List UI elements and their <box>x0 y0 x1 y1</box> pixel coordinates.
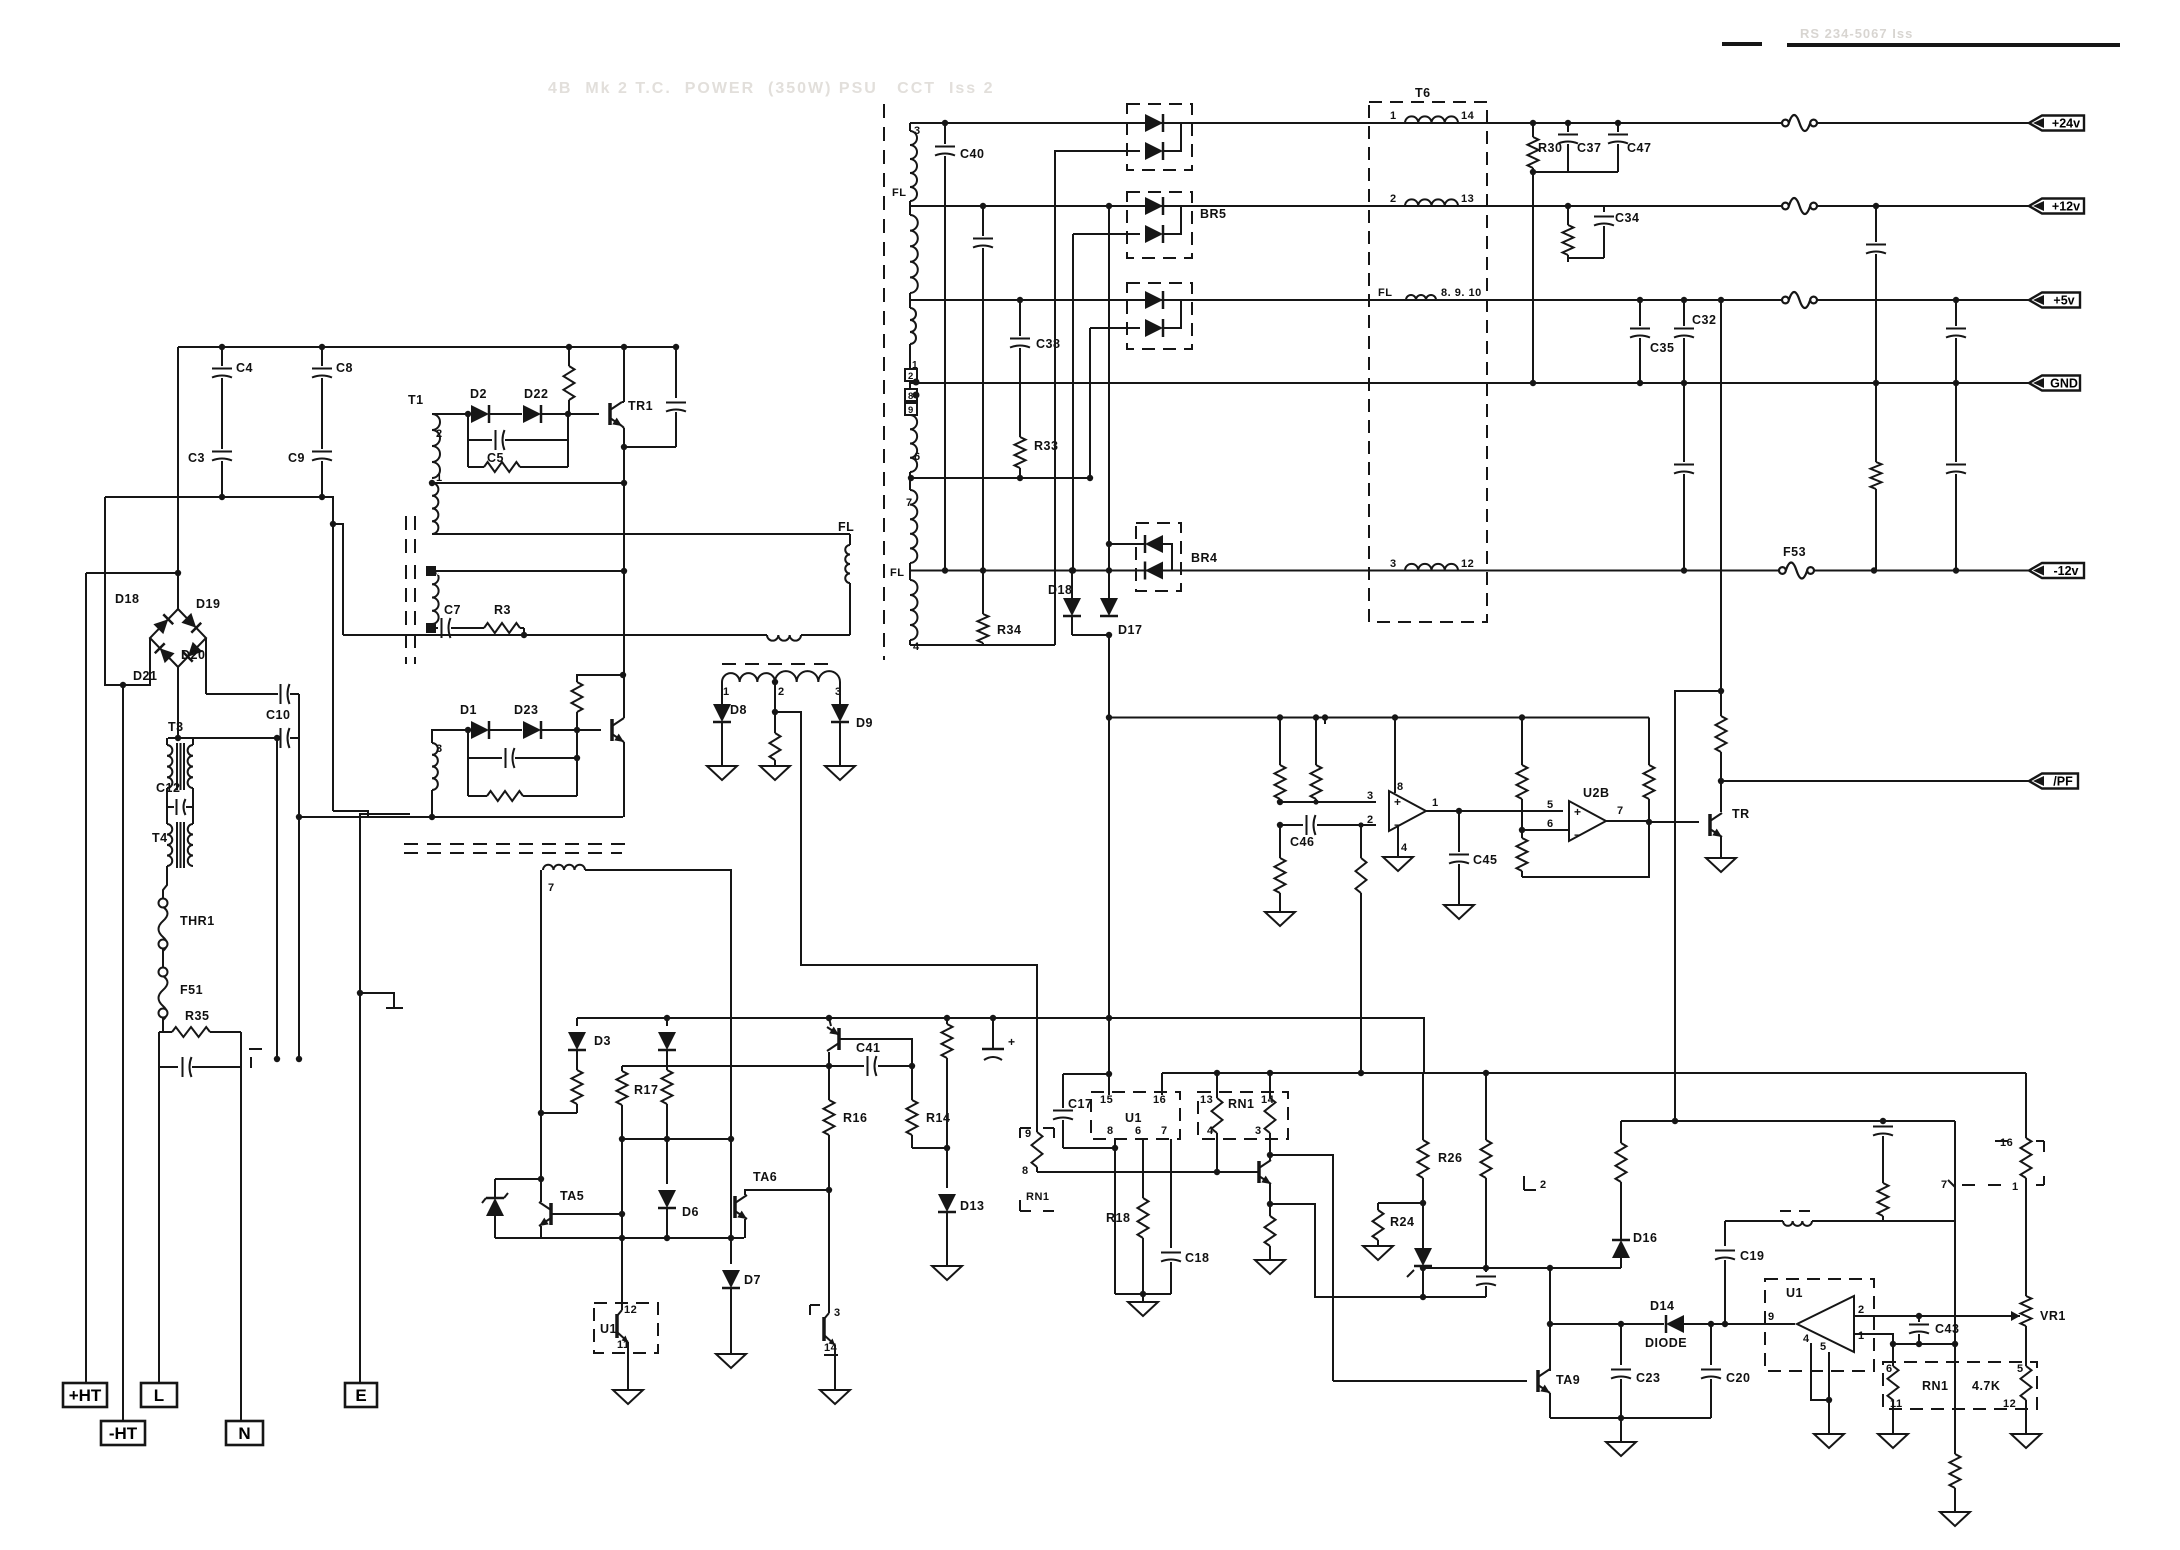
wire R34 branch <box>982 571 984 646</box>
node PF takeoff <box>1718 778 1724 784</box>
pin 5 label comp <box>1820 1341 1827 1353</box>
wire R17 down to U1 pin12 <box>621 1214 623 1310</box>
wire BR4 upper join <box>1163 544 1172 571</box>
svg-text:R34: R34 <box>997 623 1021 637</box>
svg-text:2: 2 <box>1858 1304 1865 1316</box>
svg-text:D17: D17 <box>1118 623 1142 637</box>
node +5 rail C38 branch <box>1017 297 1023 303</box>
terminal L <box>141 1383 177 1407</box>
node thyristor bottom <box>1420 1294 1426 1300</box>
RN1 13-14 label <box>1228 1097 1255 1111</box>
node 299 at 818 line <box>296 814 302 820</box>
R30 label <box>1538 141 1562 155</box>
svg-text:4: 4 <box>1401 842 1408 854</box>
resistor RN1 9-8 <box>1032 1128 1043 1172</box>
wire U2B output <box>1606 820 1649 822</box>
fuse on +5v rail <box>1782 292 1817 308</box>
node pin1 at TR1 emitter line <box>621 480 627 486</box>
node bus at D17 drop <box>1106 714 1112 720</box>
wire C10 lower right <box>290 737 299 739</box>
svg-text:C19: C19 <box>1740 1249 1764 1263</box>
diode BR5 d1 <box>1145 114 1163 132</box>
svg-text:15: 15 <box>1100 1094 1113 1106</box>
inductor damper 2-3 <box>775 671 840 682</box>
svg-text:16: 16 <box>2000 1137 2013 1149</box>
T5 secondary winding section 3-FL <box>910 131 917 201</box>
svg-text:R3: R3 <box>494 603 511 617</box>
node C41 right / R14 top <box>909 1063 915 1069</box>
pin 2 label <box>1390 193 1397 205</box>
node R30 chain GND <box>1530 380 1536 386</box>
diode D7 <box>722 1238 740 1354</box>
pin 14 label <box>1461 110 1475 122</box>
pin 6 label 4.7K <box>1886 1363 1893 1375</box>
node TR2 base <box>574 727 580 733</box>
resistor damper <box>770 712 781 766</box>
wire lower C block left <box>467 730 469 796</box>
wire zener link <box>495 1178 541 1180</box>
resistor 1522 upper <box>1517 718 1528 831</box>
C41 label <box>856 1041 880 1055</box>
svg-text:6: 6 <box>436 567 442 578</box>
wire pin4 drop <box>1811 1343 1829 1400</box>
wire bridge top riser <box>177 347 179 609</box>
svg-text:R24: R24 <box>1390 1215 1414 1229</box>
wire C41 line <box>622 1065 912 1067</box>
wire FL return line <box>343 634 850 636</box>
svg-text:TA9: TA9 <box>1556 1373 1580 1387</box>
wire C10 right vertical <box>298 694 300 1059</box>
svg-text:C46: C46 <box>1290 835 1314 849</box>
transistor U1 output 3-14 <box>824 1313 835 1345</box>
node R26/R24 <box>1420 1200 1426 1206</box>
svg-text:2: 2 <box>436 428 443 440</box>
terminal +HT <box>63 1383 107 1407</box>
wire winding pin4 row <box>910 644 1055 646</box>
resistor 1361 <box>1356 858 1367 893</box>
node TR2 collector joint <box>620 672 626 678</box>
svg-text:4B Mk 2 T.C. POWER (350W): 4B Mk 2 T.C. POWER (350W) PSU CCT Iss 2 <box>548 80 995 97</box>
wire pin5 drop <box>1828 1352 1830 1434</box>
resistor below D3 <box>572 1062 583 1113</box>
fuse F51 <box>159 968 168 1021</box>
node bridge bottom at T3 line <box>175 735 181 741</box>
node TA6 collector / R16 <box>826 1187 832 1193</box>
bridge BR5 box mid <box>1127 192 1192 258</box>
diode BR4 lower <box>1145 562 1163 580</box>
U2B label <box>1583 786 1610 800</box>
node 1361 at C46 line <box>1358 822 1363 827</box>
svg-text:+: + <box>1394 795 1402 809</box>
svg-text:16: 16 <box>1153 1094 1166 1106</box>
wire d2 feed L <box>1055 151 1140 645</box>
wire C38/R33 branch <box>1019 300 1021 478</box>
T5 secondary winding pin 3 lead <box>909 123 911 131</box>
D20 bridge label <box>181 648 205 662</box>
node 667 at 1139 line <box>664 1136 670 1142</box>
node bus 1325 <box>1322 714 1328 720</box>
capacitor C46 <box>1307 815 1316 835</box>
resistor 947 upper <box>942 1018 953 1148</box>
capacitor C34 <box>1594 206 1614 258</box>
FL label <box>838 520 854 534</box>
diode BR4 upper <box>1145 535 1163 553</box>
wire TA6 emitter <box>744 1219 746 1238</box>
node C47 top <box>1615 120 1621 126</box>
resistor 1522 lower <box>1517 830 1528 877</box>
pin 7 label U2B <box>1617 805 1624 817</box>
wire -12v rail <box>910 570 2030 572</box>
pin 2 label U2A <box>1367 814 1374 826</box>
D9 label <box>856 716 873 730</box>
wire gather to ground <box>1142 1294 1144 1302</box>
wire TR9 emitter <box>1549 1393 1551 1418</box>
capacitor on 977 branch <box>973 239 993 248</box>
pin 8 pad <box>905 389 920 402</box>
wire C5 row <box>468 430 568 450</box>
wire emitter rail 1238 <box>495 1237 744 1239</box>
node D22 cathode <box>565 411 571 417</box>
ground comparator pins <box>1814 1434 1844 1448</box>
wire 818 return line <box>299 816 623 818</box>
node D17 join <box>1106 632 1112 638</box>
diode D16 <box>1612 1240 1630 1258</box>
wire d4 cathode join <box>1163 206 1181 234</box>
pin 9 pad <box>905 403 917 416</box>
wire feedback loop bottom <box>1522 822 1649 877</box>
transformer T5 secondary dashed boundary <box>883 104 885 660</box>
wire THR1 to F51 <box>162 948 164 968</box>
resistor RN1 14-3 <box>1265 1073 1276 1155</box>
pin FL lower label <box>890 567 904 579</box>
D6 label <box>682 1205 699 1219</box>
node TA5 base / R17 <box>619 1211 625 1217</box>
D18 bridge label <box>115 592 139 606</box>
pin 6 T1 pad <box>426 566 442 578</box>
node C17 / U1 pin8 <box>1112 1145 1118 1151</box>
VR1 label <box>2040 1309 2066 1323</box>
wire PNP emitter from bus <box>829 1018 831 1026</box>
op-amp U2B <box>1569 801 1606 842</box>
wire C34 chain down <box>1567 258 1569 262</box>
svg-text:7: 7 <box>906 497 913 509</box>
dashed box RN1 4.7K <box>1883 1362 2037 1409</box>
node 945 at FL line <box>942 567 948 573</box>
wire N column <box>240 1032 242 1421</box>
pin FL label <box>892 187 906 199</box>
wire R3 drop <box>523 628 525 635</box>
wire L column <box>158 1032 160 1383</box>
winding T1 pin1 coil <box>432 483 438 534</box>
node bus1 PNP emitter <box>826 1015 832 1021</box>
svg-text:RN1: RN1 <box>1228 1097 1255 1111</box>
node 1956 at -12v <box>1953 567 1959 573</box>
transistor TR <box>1710 813 1722 837</box>
svg-text:C3: C3 <box>188 451 205 465</box>
pin 6 label U2B <box>1547 818 1554 830</box>
svg-text:+: + <box>1574 805 1582 819</box>
T5 secondary winding tap lead <box>909 293 911 308</box>
ground damper center <box>760 766 790 780</box>
svg-text:U1: U1 <box>1786 1286 1803 1300</box>
wire C40 branch <box>944 123 946 571</box>
svg-text:C34: C34 <box>1615 211 1639 225</box>
pin 5 label U2B <box>1547 799 1554 811</box>
node +12 tap for C34 <box>1565 203 1571 209</box>
svg-text:8: 8 <box>1397 781 1404 793</box>
node bus 1522 <box>1519 714 1525 720</box>
polarized capacitor on bus1 <box>982 1018 1016 1060</box>
dashed bracket RN1 9-8 <box>1020 1128 1054 1211</box>
transformer T4 left coil <box>167 824 172 866</box>
pin 4 label U2A <box>1401 842 1408 854</box>
svg-text:+5v: +5v <box>2053 294 2074 308</box>
wire TR2 base link <box>577 729 601 731</box>
wire D17 down to op-amp bus and U1 pin15 <box>1108 635 1110 1095</box>
C10 label <box>266 708 290 722</box>
svg-text:12: 12 <box>1461 558 1474 570</box>
wire TRx collector to 1333 <box>1270 1155 1333 1381</box>
inductor T6 winding 3-12 <box>1405 564 1458 571</box>
svg-text:R16: R16 <box>843 1111 867 1125</box>
ground U2A <box>1383 857 1413 871</box>
C19 label <box>1740 1249 1764 1263</box>
node C32 top <box>1681 297 1687 303</box>
wire 1268 line <box>1423 1267 1621 1269</box>
wire lower C row <box>468 748 577 768</box>
svg-text:+: + <box>1008 1035 1016 1049</box>
C8 label <box>336 361 353 375</box>
pin 7 tick mark <box>1948 1180 1955 1187</box>
node R18 bottom <box>1140 1291 1146 1297</box>
transistor U1 output 12-11 <box>617 1310 628 1342</box>
svg-text:14: 14 <box>1461 110 1475 122</box>
pin 3 label <box>914 125 921 137</box>
wire TR2 collector <box>623 675 625 718</box>
node thyristor cathode line <box>1420 1265 1426 1271</box>
inductor T6 dashed box <box>1369 102 1487 622</box>
capacitor C7 <box>436 618 484 638</box>
dashed box U1 comparator <box>1765 1279 1874 1371</box>
resistor R33 <box>1015 437 1026 468</box>
T5 secondary winding tap lead FL2 <box>909 563 911 580</box>
resistor RN1 16-1 <box>2021 1073 2032 1296</box>
node d6 feed joins row <box>1087 475 1093 481</box>
C23 label <box>1636 1371 1660 1385</box>
resistor R24 <box>1373 1203 1384 1246</box>
wire bus2 control <box>1161 1073 1163 1095</box>
ground U1-11 <box>613 1390 643 1404</box>
node R30 top <box>1530 120 1536 126</box>
resistor R35 <box>159 1027 241 1037</box>
svg-text:D21: D21 <box>133 669 157 683</box>
capacitor C41 <box>868 1056 877 1076</box>
R14 label <box>926 1111 950 1125</box>
capacitor 1876 upper <box>1866 245 1886 254</box>
svg-text:BR5: BR5 <box>1200 207 1227 221</box>
node bus2 1361 <box>1358 1070 1364 1076</box>
C17 label <box>1068 1097 1092 1111</box>
wire D3 chain to winding7 line <box>541 1112 577 1114</box>
terminal E <box>345 1383 377 1407</box>
wire pin2 C46 line <box>1280 824 1376 826</box>
transistor TA6 <box>735 1195 747 1219</box>
wire pin2 top lead <box>432 413 468 415</box>
diode D1 <box>471 721 522 739</box>
T5 pin 2 label <box>1540 1179 1547 1191</box>
pin 11 label <box>617 1339 630 1351</box>
wire winding 6 tap row <box>911 477 1090 479</box>
resistor 1316 <box>1311 718 1322 805</box>
svg-text:-12v: -12v <box>2053 564 2078 578</box>
node bus2 RN1-14 <box>1267 1070 1273 1076</box>
node bus2 RN1-13 <box>1214 1070 1220 1076</box>
pin 1 label U2A <box>1432 797 1439 809</box>
dashed box U1 16pin left <box>1091 1092 1180 1139</box>
pin 7 label <box>1161 1125 1168 1137</box>
pin 1 damper <box>723 686 730 698</box>
pin 3 damper <box>835 686 842 698</box>
svg-text:+24v: +24v <box>2052 117 2080 131</box>
svg-text:C18: C18 <box>1185 1251 1209 1265</box>
resistor R26 <box>1418 1073 1429 1203</box>
wire bus1 oscillator supply <box>577 1018 1424 1073</box>
node D18 anode <box>1069 567 1075 573</box>
capacitor C3 <box>212 452 232 498</box>
ground RN1 5-12 <box>2011 1434 2041 1448</box>
wire d4 feed top <box>1073 233 1140 235</box>
wire 1876 branch <box>1875 206 1877 571</box>
flag GND <box>2029 376 2080 391</box>
wire +HT drop <box>85 573 87 1383</box>
wire E riser <box>359 993 361 1383</box>
svg-text:RS 234-5067 Iss: RS 234-5067 Iss <box>1800 26 1913 41</box>
R35 label <box>185 1009 209 1023</box>
resistor R3 <box>484 623 524 633</box>
wire pin3 top lead <box>432 730 468 743</box>
svg-text:C4: C4 <box>236 361 253 375</box>
svg-text:L: L <box>154 1386 164 1405</box>
svg-text:TR: TR <box>1732 807 1750 821</box>
node C4 top <box>219 344 225 350</box>
pin 15 label <box>1100 1094 1113 1106</box>
pin 14 label <box>1261 1094 1275 1106</box>
svg-text:1: 1 <box>723 686 730 698</box>
node 1876 at GND <box>1873 380 1879 386</box>
wire TR2 emitter drop <box>623 742 625 817</box>
wire 818 jog <box>333 811 368 817</box>
C32 label <box>1692 313 1716 327</box>
wire T3 bottom leads <box>167 788 193 824</box>
T5 secondary winding section bottom <box>910 580 918 640</box>
svg-text:8. 9. 10: 8. 9. 10 <box>1441 287 1482 299</box>
T5 secondary winding pins cluster lead <box>909 344 911 403</box>
node damper branch <box>772 709 778 715</box>
resistor PF chain <box>1716 691 1727 781</box>
flag +24v <box>2029 116 2084 131</box>
ground TR9 rail <box>1606 1442 1636 1456</box>
svg-text:C41: C41 <box>856 1041 880 1055</box>
node TR1 emitter corner <box>621 444 627 450</box>
wire C23 <box>1611 1324 1631 1418</box>
diode BR5 d2 <box>1145 142 1163 160</box>
svg-text:FL: FL <box>838 520 854 534</box>
D13 label <box>960 1199 984 1213</box>
svg-text:D18: D18 <box>1048 583 1072 597</box>
svg-text:3: 3 <box>436 743 443 755</box>
potentiometer VR1 <box>2011 1296 2032 1326</box>
svg-text:4: 4 <box>1803 1333 1810 1345</box>
svg-text:1: 1 <box>1858 1330 1865 1342</box>
top right faint text <box>1800 26 1913 41</box>
node C8 top <box>319 344 325 350</box>
node C43 top <box>1916 1313 1922 1319</box>
terminal N <box>226 1421 263 1445</box>
wire +5 to PF chain top <box>1720 300 1722 691</box>
node TRx collector <box>1267 1152 1273 1158</box>
pin 3 label RN1 <box>1255 1125 1262 1137</box>
node pin1 into RN1-6 <box>1890 1341 1896 1347</box>
wire d6 feed L <box>1089 328 1091 478</box>
svg-text:T6: T6 <box>1415 86 1431 100</box>
svg-text:5: 5 <box>1820 1341 1827 1353</box>
wire R parallel row <box>468 462 568 472</box>
wire U1-11 emitter to ground <box>627 1342 629 1390</box>
wire E chassis arm <box>360 993 394 1008</box>
node PF chain split <box>1718 688 1724 694</box>
node jog <box>330 521 336 527</box>
resistor divider upper 1280 <box>1275 718 1286 803</box>
svg-text:C23: C23 <box>1636 1371 1660 1385</box>
svg-text:C37: C37 <box>1577 141 1601 155</box>
node +24 rail / C40 <box>942 120 948 126</box>
wire E to screen <box>360 814 410 993</box>
svg-text:7: 7 <box>1941 1179 1948 1191</box>
svg-text:D18: D18 <box>115 592 139 606</box>
T1 screen dash bottom <box>404 844 630 853</box>
svg-text:C45: C45 <box>1473 853 1497 867</box>
4.7K value label <box>1972 1379 2000 1393</box>
node cap row right <box>574 755 580 761</box>
wire TA5 collector <box>540 870 542 1202</box>
node C20 top <box>1708 1321 1714 1327</box>
resistor 1876 lower <box>1871 462 1882 489</box>
capacitor C38 <box>1010 339 1030 348</box>
RN1 4.7K label <box>1922 1379 1949 1393</box>
svg-text:13: 13 <box>1461 193 1474 205</box>
C12 label <box>156 781 180 795</box>
diode D14 <box>1666 1315 1684 1333</box>
ground D13 <box>932 1266 962 1280</box>
wire TR1 emitter loop <box>624 446 676 448</box>
pin 3 driver label <box>834 1307 841 1319</box>
diode D19 bridge <box>181 613 201 633</box>
wire 277 drop <box>276 738 278 1059</box>
svg-text:+HT: +HT <box>69 1386 102 1405</box>
node +5 postfuse <box>1953 297 1959 303</box>
resistor R18 <box>1138 1198 1149 1294</box>
TA9 label <box>1556 1373 1580 1387</box>
svg-text:9: 9 <box>1025 1128 1032 1140</box>
pin 4 label <box>913 641 920 653</box>
wire T4 bottom to THR1 <box>163 866 167 898</box>
T1 screen dashes upper <box>406 516 415 560</box>
pin 9 label comp <box>1768 1311 1775 1323</box>
wire TRx collector <box>1269 1155 1271 1160</box>
wire 1121 line <box>1621 1120 1955 1122</box>
svg-text:D13: D13 <box>960 1199 984 1213</box>
wire D18-D17 join <box>1072 634 1109 636</box>
